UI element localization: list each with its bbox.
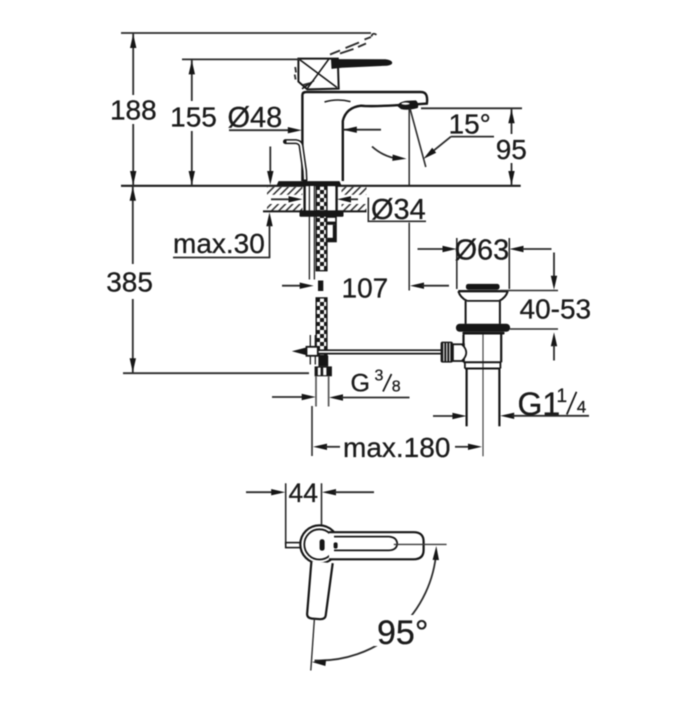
linkage block on lift rod bbox=[292, 347, 318, 356]
white band across hatch for Ø34 dimension arrows bbox=[263, 195, 303, 204]
drain valve body bbox=[464, 335, 502, 363]
extension line for 95 top (spout outlet) bbox=[421, 107, 522, 109]
raised handle dashed outline bbox=[295, 34, 377, 85]
dimension 155 bbox=[170, 59, 217, 185]
dimension 107 bbox=[282, 272, 449, 303]
drain neck bbox=[466, 301, 500, 324]
dimension Ø48 bbox=[228, 102, 382, 134]
threaded shank (upper part) bbox=[316, 186, 327, 271]
svg-text:385: 385 bbox=[106, 266, 153, 297]
svg-text:3: 3 bbox=[375, 367, 384, 384]
svg-text:107: 107 bbox=[342, 272, 389, 303]
dimension G 3/8 bbox=[272, 367, 410, 400]
svg-text:Ø48: Ø48 bbox=[228, 102, 283, 134]
svg-text:Ø34: Ø34 bbox=[371, 194, 426, 226]
svg-text:G: G bbox=[351, 369, 370, 397]
hex nut on shank bbox=[315, 366, 332, 376]
95 degree arc bbox=[312, 546, 439, 666]
drain O-ring seal bbox=[456, 324, 510, 335]
svg-text:G1: G1 bbox=[518, 386, 561, 422]
mounting washer nut below deck bbox=[300, 210, 344, 216]
drain flange bbox=[458, 291, 508, 301]
supply pipe below nut bbox=[316, 376, 329, 406]
svg-text:Ø63: Ø63 bbox=[455, 235, 510, 267]
shank end block bbox=[318, 356, 328, 367]
svg-text:44: 44 bbox=[289, 478, 318, 508]
extension line bottom of 385 bbox=[123, 372, 309, 374]
spout inner shading curve bbox=[325, 100, 351, 102]
svg-text:max.180: max.180 bbox=[343, 432, 450, 463]
water stream line tilted 15deg bbox=[410, 109, 426, 168]
top extension line (top of raised lever) bbox=[121, 32, 371, 34]
dimension 44 bbox=[246, 478, 374, 545]
knurled adjustment knob bbox=[441, 342, 453, 363]
top view: horizontal reference line bbox=[394, 543, 447, 545]
dimension G1 1/4 bbox=[433, 386, 589, 422]
svg-text:40-53: 40-53 bbox=[520, 294, 592, 325]
svg-text:max.30: max.30 bbox=[173, 228, 265, 259]
pop-up rod pipe below deck bbox=[309, 186, 315, 365]
pipe break tick at 107 line bbox=[318, 281, 323, 292]
dimension 385 bbox=[106, 186, 153, 373]
countertop bottom line bbox=[263, 210, 367, 212]
dimension 15 degrees bbox=[423, 108, 494, 159]
handle block bbox=[298, 59, 338, 90]
drain coupling ring bbox=[465, 362, 501, 368]
top view: lever centerline extension bbox=[311, 619, 315, 671]
drain plug cap bbox=[466, 284, 500, 290]
drain tailpipe bbox=[467, 369, 500, 427]
label box Ø34 bbox=[367, 196, 427, 222]
top view: lever rotated down 95deg bbox=[307, 561, 333, 619]
svg-text:188: 188 bbox=[110, 94, 157, 125]
dimension Ø63 bbox=[418, 235, 552, 289]
top view: pop-up rod pin bbox=[286, 543, 303, 548]
dimension max.180 bbox=[312, 406, 482, 463]
svg-text:4: 4 bbox=[577, 397, 586, 416]
handle lever bbox=[331, 59, 392, 69]
svg-text:155: 155 bbox=[170, 102, 217, 133]
pop-up waste drain: centerline bbox=[482, 333, 484, 456]
label 95 degrees bbox=[374, 615, 429, 646]
top view: faucet body outer circle bbox=[300, 525, 338, 563]
rod guide clamp bbox=[327, 217, 336, 242]
countertop hatched cross-section left of faucet bbox=[267, 187, 303, 211]
dimension 188 bbox=[110, 33, 157, 186]
horizontal pop-up linkage rod bbox=[318, 350, 441, 355]
dimension max.30 bbox=[173, 147, 274, 259]
svg-text:1: 1 bbox=[557, 386, 568, 407]
base plate on countertop bbox=[277, 181, 342, 186]
dimension 40-53 bbox=[500, 253, 591, 361]
svg-text:95: 95 bbox=[496, 134, 527, 165]
top view: faucet body inner circle bbox=[304, 529, 334, 559]
aerator at spout tip bbox=[398, 100, 419, 109]
dimension Ø34 bbox=[271, 194, 426, 226]
mounting shank hole edges through countertop bbox=[305, 186, 337, 211]
countertop hatched cross-section right of faucet bbox=[342, 187, 367, 211]
extension line for 155 (top of lever) bbox=[182, 58, 300, 60]
countertop top surface line bbox=[121, 185, 521, 187]
svg-text:8: 8 bbox=[392, 378, 401, 395]
15 degree arc bbox=[372, 147, 407, 161]
knob housing bbox=[453, 344, 466, 361]
svg-text:15°: 15° bbox=[449, 108, 491, 139]
top view: cartridge marks bbox=[320, 539, 338, 550]
top view: lever pointing right bbox=[329, 532, 424, 559]
threaded shank (lower part) bbox=[316, 298, 327, 356]
faucet body and spout outline bbox=[302, 92, 427, 181]
dimension 95 (spout height) bbox=[496, 108, 527, 186]
spout centerline (vertical reference under outlet) bbox=[408, 109, 410, 185]
svg-text:95°: 95° bbox=[377, 614, 428, 652]
pop-up lift rod bbox=[286, 142, 306, 180]
